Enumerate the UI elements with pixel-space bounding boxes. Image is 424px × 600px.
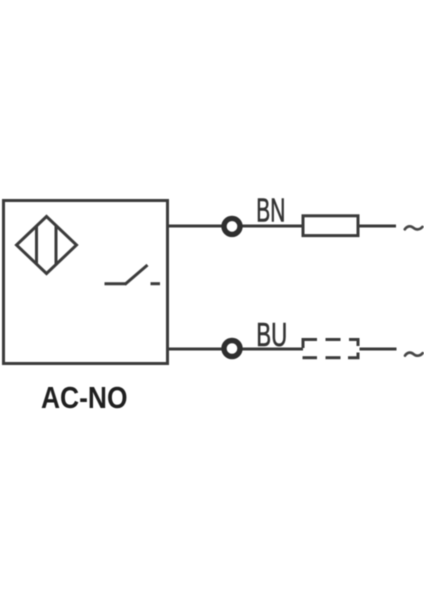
- svg-text:AC-NO: AC-NO: [41, 381, 128, 415]
- svg-text:BN: BN: [256, 192, 285, 229]
- svg-text:BU: BU: [256, 316, 287, 353]
